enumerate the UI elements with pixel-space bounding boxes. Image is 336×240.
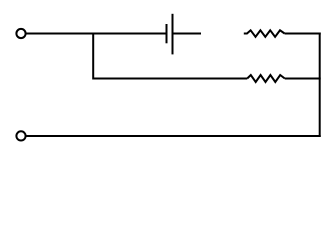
wire: right rail	[319, 33, 321, 138]
terminal (bottom-left input)	[16, 131, 25, 140]
wire: bottom return	[26, 135, 321, 137]
wire: middle resistor to right rail	[285, 78, 321, 80]
wire: branch from top wire down to middle resistor	[93, 34, 247, 79]
battery: long plate	[172, 14, 174, 55]
wire: battery to open gap	[173, 33, 202, 35]
resistor (top)	[244, 30, 285, 37]
terminal (top-left input)	[16, 29, 25, 38]
wire: top terminal to battery	[26, 33, 167, 35]
resistor (middle)	[247, 75, 285, 82]
battery	[167, 14, 173, 55]
wire: top resistor to right rail	[285, 33, 321, 35]
battery: short plate	[166, 24, 168, 43]
